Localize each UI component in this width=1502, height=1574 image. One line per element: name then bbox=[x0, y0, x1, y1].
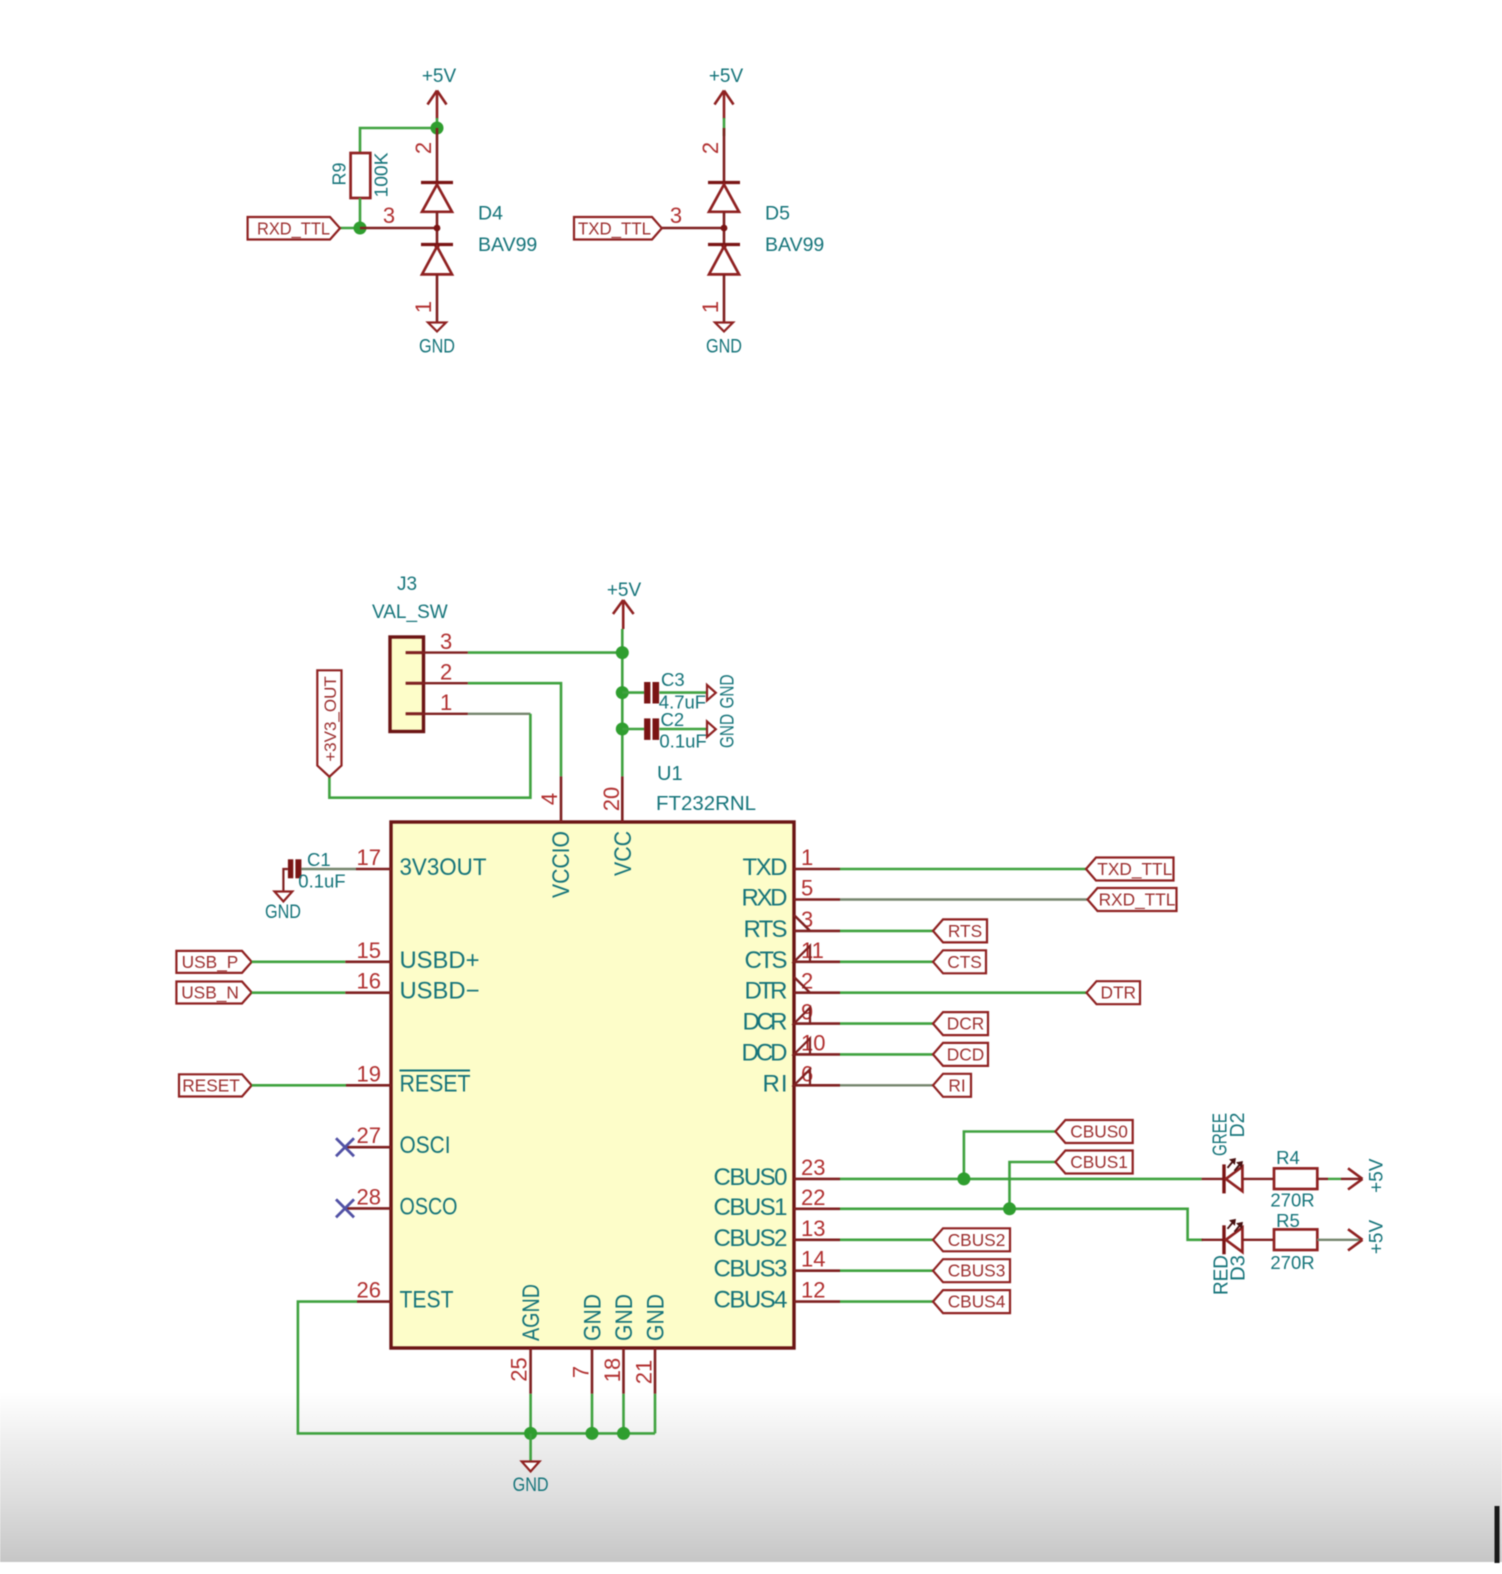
svg-text:28: 28 bbox=[357, 1184, 381, 1209]
svg-text:VCC: VCC bbox=[610, 831, 637, 876]
svg-text:RXD: RXD bbox=[742, 885, 788, 912]
pin 13 CBUS2 bbox=[794, 1239, 840, 1242]
svg-text:2: 2 bbox=[411, 142, 436, 154]
svg-text:GND: GND bbox=[513, 1474, 549, 1496]
wire R9 bottom to RXD node bbox=[359, 198, 362, 228]
pin 2 DTR bbox=[794, 991, 840, 994]
svg-text:2: 2 bbox=[440, 660, 452, 685]
svg-text:100K: 100K bbox=[372, 153, 392, 198]
wire J3.3 to +5V rail bbox=[468, 651, 622, 654]
LED D3 triangle bbox=[1226, 1228, 1243, 1253]
svg-text:CBUS1: CBUS1 bbox=[1070, 1152, 1128, 1172]
svg-text:CBUS1: CBUS1 bbox=[714, 1194, 788, 1221]
wire AGND to bus bbox=[529, 1394, 532, 1434]
wire DCR to label bbox=[840, 1022, 933, 1025]
svg-text:5: 5 bbox=[801, 876, 813, 901]
pin 25 AGND (bottom) bbox=[529, 1348, 532, 1394]
svg-text:+5V: +5V bbox=[1366, 1158, 1387, 1193]
svg-text:DTR: DTR bbox=[1100, 983, 1136, 1003]
svg-text:D2: D2 bbox=[1227, 1113, 1249, 1138]
svg-text:+5V: +5V bbox=[422, 66, 457, 87]
pin 18 GND (bottom) bbox=[622, 1348, 625, 1394]
junction dot at RXD node bbox=[354, 222, 367, 235]
junction CBUS0 net bbox=[957, 1172, 970, 1185]
global label USB_N bbox=[176, 982, 251, 1004]
svg-text:OSCI: OSCI bbox=[400, 1132, 451, 1159]
pin 28 OSCO bbox=[345, 1207, 391, 1210]
pin 22 CBUS1 bbox=[794, 1208, 840, 1211]
pin 27 OSCI bbox=[345, 1146, 391, 1149]
svg-text:RESET: RESET bbox=[182, 1076, 240, 1096]
svg-text:9: 9 bbox=[801, 1000, 813, 1025]
svg-text:1: 1 bbox=[801, 845, 813, 870]
global label CBUS1 bbox=[1055, 1151, 1132, 1174]
pin 26 TEST bbox=[357, 1300, 391, 1303]
global label TXD_TTL bbox=[574, 217, 662, 240]
svg-text:21: 21 bbox=[631, 1360, 656, 1384]
J3 pin 3 bbox=[406, 651, 424, 654]
svg-text:R4: R4 bbox=[1276, 1147, 1300, 1168]
global label CBUS2 bbox=[933, 1228, 1010, 1251]
svg-text:1: 1 bbox=[411, 301, 436, 313]
junction GND7 bbox=[586, 1427, 599, 1440]
svg-text:FT232RNL: FT232RNL bbox=[656, 792, 756, 815]
ground right of C3 bbox=[707, 685, 716, 701]
power +5V right of R5 bbox=[1348, 1229, 1363, 1250]
svg-text:TEST: TEST bbox=[400, 1287, 454, 1314]
svg-text:RTS: RTS bbox=[948, 921, 982, 941]
diode D5 pin 1 bbox=[723, 274, 726, 322]
svg-text:1: 1 bbox=[440, 690, 452, 715]
svg-text:GND: GND bbox=[717, 675, 739, 709]
svg-text:VCCIO: VCCIO bbox=[548, 831, 575, 898]
wire GND7 to bus bbox=[591, 1394, 594, 1434]
global label RXD_TTL bbox=[248, 217, 340, 240]
svg-text:R9: R9 bbox=[330, 162, 350, 185]
svg-text:18: 18 bbox=[600, 1358, 625, 1382]
wire USB_N to pin 16 bbox=[252, 991, 346, 994]
svg-text:+5V: +5V bbox=[709, 66, 744, 87]
capacitor C3 bbox=[622, 691, 644, 694]
global label USB_P bbox=[176, 951, 251, 973]
active-low output marker pin 3 RTS bbox=[794, 915, 810, 931]
diode D4 pin 1 bbox=[436, 274, 439, 322]
pin 14 CBUS3 bbox=[794, 1269, 840, 1272]
pin 7 GND (bottom) bbox=[591, 1348, 594, 1394]
svg-text:USB_N: USB_N bbox=[181, 983, 239, 1003]
svg-text:CTS: CTS bbox=[947, 952, 982, 972]
svg-text:GND: GND bbox=[611, 1294, 638, 1341]
junction C3 bbox=[616, 686, 629, 699]
svg-text:USB_P: USB_P bbox=[182, 952, 239, 972]
svg-text:DCR: DCR bbox=[947, 1014, 984, 1034]
ground below D4 bbox=[428, 323, 446, 332]
svg-text:CBUS3: CBUS3 bbox=[714, 1256, 788, 1283]
wire J3.1 to +3V3_OUT label bbox=[468, 713, 531, 715]
wire CBUS1 label to pin 22 net bbox=[1010, 1162, 1056, 1209]
active-low input marker DCR bbox=[794, 1008, 810, 1024]
capacitor C1 bbox=[288, 859, 293, 878]
pin 3 RTS bbox=[794, 930, 840, 933]
no-connect X at OSCO bbox=[336, 1199, 354, 1217]
svg-text:C3: C3 bbox=[661, 669, 685, 690]
J3 pin 2 bbox=[406, 682, 424, 685]
svg-text:DTR: DTR bbox=[745, 978, 788, 1005]
svg-text:270R: 270R bbox=[1270, 1190, 1314, 1211]
overbar on RESET pin name bbox=[400, 1070, 471, 1072]
svg-text:GND: GND bbox=[265, 901, 301, 923]
diode D4 pin 2 bbox=[436, 128, 439, 182]
resistor R5 bbox=[1274, 1229, 1317, 1250]
pin 12 CBUS4 bbox=[794, 1300, 840, 1303]
wire RTS to label bbox=[840, 930, 933, 933]
svg-text:3: 3 bbox=[383, 203, 395, 228]
pin 5 RXD bbox=[794, 898, 840, 901]
svg-text:TXD_TTL: TXD_TTL bbox=[1097, 859, 1172, 879]
pin 16 USBD- bbox=[345, 991, 391, 994]
svg-text:CBUS4: CBUS4 bbox=[948, 1292, 1006, 1312]
wire node to D4 pin 3 bbox=[360, 227, 437, 229]
svg-text:USBD+: USBD+ bbox=[400, 947, 480, 974]
wire USB_P to pin 15 bbox=[252, 960, 346, 963]
svg-text:3: 3 bbox=[670, 203, 682, 228]
wire C3 to GND bbox=[659, 691, 707, 694]
svg-text:RTS: RTS bbox=[744, 916, 788, 943]
LED D2 pin (left) bbox=[1202, 1178, 1224, 1180]
ground symbol at bus bbox=[522, 1462, 540, 1472]
wire TXD_TTL to D5 pin 3 bbox=[662, 227, 724, 229]
svg-text:3V3OUT: 3V3OUT bbox=[400, 854, 487, 881]
svg-text:CBUS4: CBUS4 bbox=[714, 1287, 788, 1314]
wire pin 12 to CBUS4 label bbox=[840, 1300, 933, 1303]
wire RXD_TTL label to node bbox=[340, 227, 360, 230]
wire GND21 to bus bbox=[654, 1394, 657, 1434]
junction C2 bbox=[616, 723, 629, 736]
global label RTS bbox=[933, 919, 987, 942]
svg-text:270R: 270R bbox=[1270, 1252, 1314, 1273]
svg-text:CTS: CTS bbox=[745, 947, 788, 974]
wire R4 to +5V bbox=[1317, 1178, 1328, 1180]
wire pin 23 to LED D2 bbox=[840, 1178, 1202, 1181]
wire RXD to RXD_TTL bbox=[840, 898, 1088, 900]
global label DCR bbox=[933, 1012, 988, 1035]
svg-text:0.1uF: 0.1uF bbox=[659, 731, 706, 752]
wire +5V rail down to VCC bbox=[621, 629, 624, 776]
pin 17 3V3OUT bbox=[356, 868, 391, 871]
junction CBUS1 net bbox=[1003, 1202, 1016, 1215]
svg-text:GND: GND bbox=[706, 336, 742, 358]
svg-text:RXD_TTL: RXD_TTL bbox=[257, 219, 330, 239]
svg-text:DCD: DCD bbox=[947, 1044, 984, 1064]
diode D5 lower half bbox=[708, 243, 740, 246]
wire +5V to junction (D4) bbox=[436, 118, 439, 129]
global label CBUS3 bbox=[933, 1259, 1010, 1282]
wire LED D2 to R4 bbox=[1242, 1178, 1274, 1180]
svg-text:TXD: TXD bbox=[743, 854, 788, 881]
wire bus to ground symbol bbox=[529, 1433, 532, 1461]
pin 23 CBUS0 bbox=[794, 1178, 840, 1181]
wire J3.2 to VCCIO bbox=[468, 683, 561, 776]
pin 19 RESET bbox=[346, 1084, 391, 1087]
svg-text:CBUS0: CBUS0 bbox=[714, 1164, 788, 1191]
svg-text:BAV99: BAV99 bbox=[478, 234, 537, 256]
pin 9 DCR bbox=[794, 1022, 840, 1025]
svg-text:+5V: +5V bbox=[607, 580, 642, 601]
svg-text:16: 16 bbox=[357, 969, 381, 994]
ground right of C2 bbox=[707, 721, 716, 737]
wire C2 to GND bbox=[659, 728, 707, 731]
pin 21 GND (bottom) bbox=[654, 1348, 657, 1394]
svg-text:RESET: RESET bbox=[400, 1070, 471, 1097]
active-low input marker CTS bbox=[794, 946, 810, 962]
svg-text:26: 26 bbox=[357, 1278, 381, 1303]
svg-text:BAV99: BAV99 bbox=[765, 234, 824, 256]
svg-text:+5V: +5V bbox=[1366, 1220, 1387, 1255]
junction dot at +5V node bbox=[431, 122, 444, 135]
LED D3 light arrows bbox=[1228, 1220, 1242, 1232]
pin 4 VCCIO bbox=[560, 776, 563, 822]
svg-text:USBD−: USBD− bbox=[400, 978, 480, 1005]
pin 15 USBD+ bbox=[345, 960, 391, 963]
wire C1 to pin 17 bbox=[301, 868, 356, 870]
junction J3.3 / +5V bbox=[616, 646, 629, 659]
svg-text:OSCO: OSCO bbox=[400, 1193, 458, 1220]
ground below C1 bbox=[275, 892, 293, 902]
svg-text:6: 6 bbox=[801, 1061, 813, 1086]
global label TXD_TTL bbox=[1086, 858, 1174, 881]
svg-text:J3: J3 bbox=[397, 574, 417, 595]
svg-text:AGND: AGND bbox=[518, 1284, 545, 1341]
svg-text:R5: R5 bbox=[1276, 1210, 1300, 1231]
svg-text:CBUS3: CBUS3 bbox=[948, 1261, 1006, 1281]
connector J3 bbox=[390, 637, 424, 732]
ground below D5 bbox=[715, 323, 733, 332]
wire DTR to label bbox=[840, 991, 1087, 994]
svg-text:27: 27 bbox=[357, 1123, 381, 1148]
wire DCD to label bbox=[840, 1053, 933, 1056]
svg-text:1: 1 bbox=[698, 301, 723, 313]
wire pin 22 toward LED D3 bbox=[840, 1209, 1203, 1240]
svg-text:RXD_TTL: RXD_TTL bbox=[1099, 890, 1176, 910]
svg-text:13: 13 bbox=[801, 1216, 825, 1241]
diode D5 upper half bbox=[708, 181, 740, 184]
svg-text:22: 22 bbox=[801, 1185, 825, 1210]
LED D3 pin (left) bbox=[1202, 1239, 1224, 1241]
svg-text:GND: GND bbox=[419, 336, 455, 358]
svg-text:3: 3 bbox=[440, 629, 452, 654]
svg-text:C2: C2 bbox=[661, 709, 685, 730]
diode D4 upper half bbox=[421, 181, 453, 184]
LED D2 light arrows bbox=[1228, 1159, 1242, 1171]
svg-text:D3: D3 bbox=[1228, 1255, 1250, 1281]
wire pin 13 to CBUS2 label bbox=[840, 1239, 933, 1242]
svg-text:12: 12 bbox=[801, 1278, 825, 1303]
LED D2 triangle bbox=[1226, 1167, 1243, 1192]
global label RXD_TTL bbox=[1088, 888, 1177, 911]
node pin 3 of D4 bbox=[434, 225, 441, 232]
LED D3 cathode bar bbox=[1222, 1225, 1225, 1254]
svg-text:23: 23 bbox=[801, 1155, 825, 1180]
svg-text:17: 17 bbox=[357, 845, 381, 870]
wire R5 to +5V bbox=[1317, 1239, 1362, 1241]
global label RI bbox=[933, 1074, 971, 1097]
svg-text:25: 25 bbox=[507, 1357, 532, 1381]
no-connect X at OSCI bbox=[336, 1138, 354, 1156]
wire RI to label bbox=[840, 1084, 933, 1086]
svg-text:DCD: DCD bbox=[742, 1039, 788, 1066]
node pin 3 of D5 bbox=[721, 225, 728, 232]
svg-text:7: 7 bbox=[568, 1366, 593, 1378]
svg-text:RI: RI bbox=[948, 1075, 965, 1095]
active-low output marker pin 2 DTR bbox=[794, 977, 810, 993]
wire CTS to label bbox=[840, 960, 933, 963]
svg-text:D5: D5 bbox=[765, 203, 790, 225]
capacitor C2 bbox=[622, 728, 644, 731]
power +5V right of R4 bbox=[1348, 1168, 1363, 1189]
global label DCD bbox=[933, 1043, 988, 1066]
wire TXD to TXD_TTL bbox=[840, 868, 1086, 871]
pin 1 TXD bbox=[794, 868, 840, 871]
junction GND18 bbox=[617, 1427, 630, 1440]
pin 6 RI bbox=[794, 1084, 840, 1087]
svg-text:0.1uF: 0.1uF bbox=[298, 871, 345, 892]
svg-text:GND: GND bbox=[717, 714, 739, 748]
svg-text:D4: D4 bbox=[478, 203, 503, 225]
J3 pin 1 bbox=[406, 712, 424, 715]
resistor R9 bbox=[351, 153, 371, 198]
wire junction to R9 top bbox=[360, 128, 437, 153]
svg-text:TXD_TTL: TXD_TTL bbox=[578, 219, 651, 239]
wire TEST to GND bus bbox=[298, 1302, 655, 1434]
wire +5V to D5 bbox=[723, 118, 726, 136]
svg-text:19: 19 bbox=[357, 1061, 381, 1086]
wire RESET to pin 19 bbox=[252, 1084, 346, 1087]
pin 11 CTS bbox=[794, 960, 840, 963]
global label +3V3_OUT bbox=[317, 670, 341, 776]
wire LED D3 to R5 bbox=[1242, 1239, 1274, 1241]
svg-text:GND: GND bbox=[643, 1294, 670, 1341]
scrollbar bbox=[1495, 1506, 1500, 1563]
svg-text:U1: U1 bbox=[657, 763, 683, 785]
wire pin 14 to CBUS3 label bbox=[840, 1269, 933, 1272]
pin 20 VCC bbox=[621, 776, 624, 822]
svg-text:DCR: DCR bbox=[743, 1009, 788, 1036]
IC U1 body bbox=[391, 822, 794, 1348]
svg-text:15: 15 bbox=[357, 938, 381, 963]
global label CBUS0 bbox=[1055, 1120, 1132, 1143]
svg-text:14: 14 bbox=[801, 1247, 825, 1272]
pin 10 DCD bbox=[794, 1053, 840, 1056]
svg-text:+3V3_OUT: +3V3_OUT bbox=[321, 676, 340, 762]
svg-text:CBUS0: CBUS0 bbox=[1070, 1122, 1128, 1142]
svg-text:GND: GND bbox=[580, 1294, 607, 1341]
wire CBUS0 label to pin 23 net bbox=[964, 1132, 1056, 1179]
svg-text:CBUS2: CBUS2 bbox=[948, 1230, 1006, 1250]
svg-text:2: 2 bbox=[698, 142, 723, 154]
svg-text:4: 4 bbox=[537, 793, 562, 805]
svg-text:RI: RI bbox=[763, 1070, 788, 1097]
global label DTR bbox=[1087, 981, 1141, 1004]
svg-text:20: 20 bbox=[599, 787, 624, 811]
global label CTS bbox=[933, 950, 986, 973]
svg-text:CBUS2: CBUS2 bbox=[714, 1225, 788, 1252]
junction AGND bbox=[524, 1427, 537, 1440]
global label CBUS4 bbox=[933, 1290, 1010, 1313]
active-low input marker DCD bbox=[794, 1038, 810, 1054]
diode D5 pin 2 bbox=[723, 128, 726, 182]
active-low input marker RI bbox=[794, 1069, 810, 1085]
wire GND18 to bus bbox=[622, 1394, 625, 1434]
global label RESET bbox=[179, 1074, 252, 1096]
svg-text:VAL_SW: VAL_SW bbox=[372, 602, 448, 623]
resistor R4 bbox=[1274, 1168, 1317, 1189]
diode D4 lower half bbox=[421, 243, 453, 246]
wire C1 to GND bbox=[283, 869, 288, 892]
svg-text:C1: C1 bbox=[307, 849, 331, 870]
LED D2 cathode bar bbox=[1222, 1164, 1225, 1193]
